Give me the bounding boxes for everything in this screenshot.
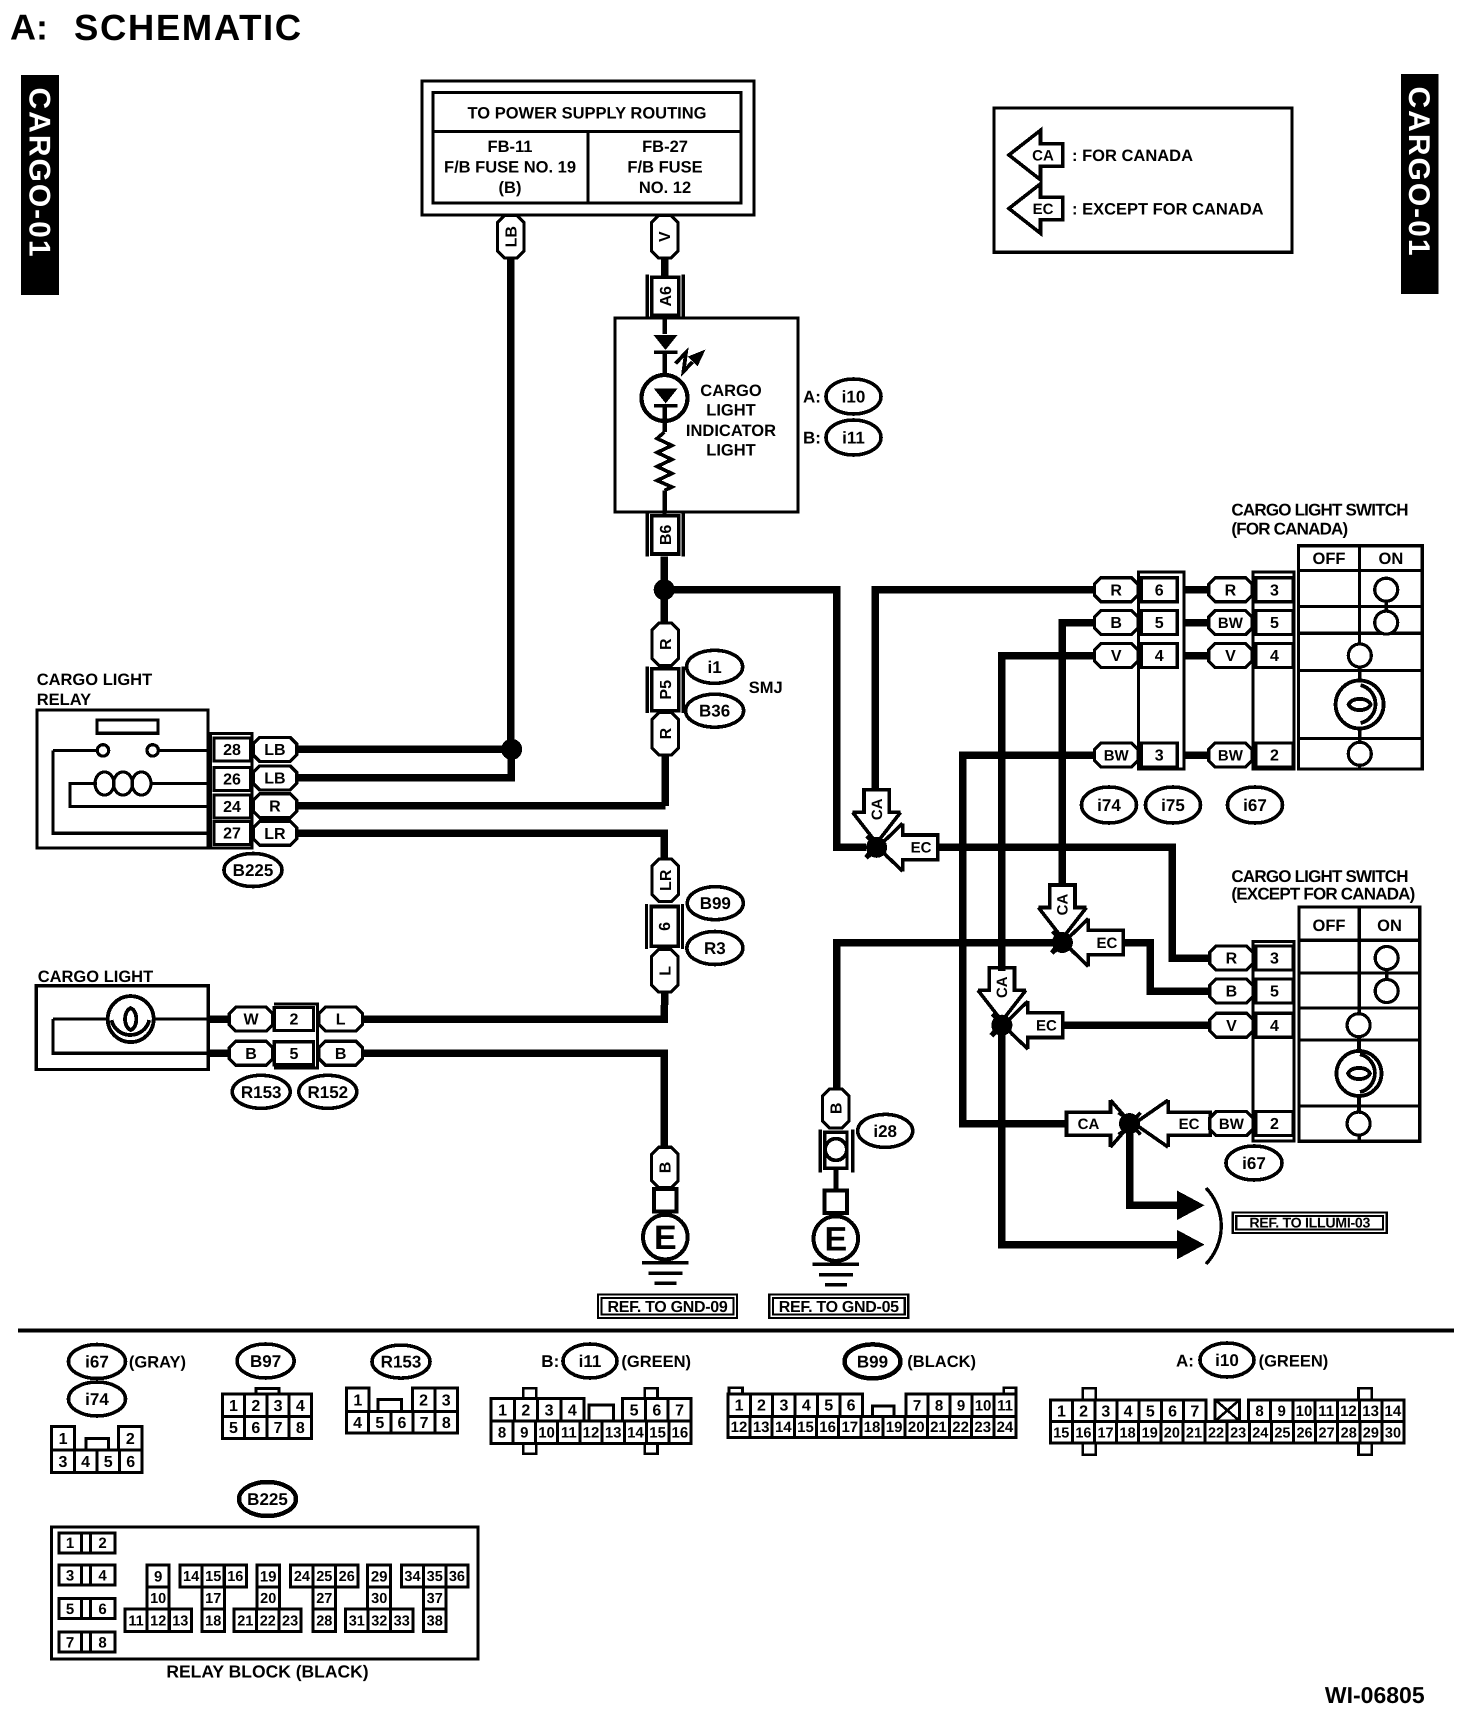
svg-text:6: 6 [398,1415,407,1432]
wire J0 down to SMJ [660,590,668,624]
connector ref oval i74 [1082,787,1137,823]
node J3 [991,1015,1012,1036]
svg-text:8: 8 [935,1397,943,1414]
svg-text:V: V [657,231,674,242]
wire diode to LED [662,353,666,376]
connector i74 pin diagram [52,1427,142,1473]
connector ref oval B225 [224,854,282,887]
switch table (FOR CANADA) [1298,546,1422,769]
svg-text:28: 28 [316,1613,332,1629]
svg-text:26: 26 [1296,1425,1312,1441]
svg-text:10: 10 [1296,1403,1313,1420]
svg-text:17: 17 [205,1591,221,1607]
svg-text:B: B [657,1162,674,1174]
svg-text:35: 35 [427,1569,443,1585]
svg-text:B225: B225 [233,861,274,880]
svg-text:1: 1 [229,1398,238,1415]
svg-text:i75: i75 [1161,796,1185,815]
arrow EC3 [992,1001,1063,1049]
terminal R pin24 [253,794,297,818]
svg-text:CARGO LIGHT SWITCH: CARGO LIGHT SWITCH [1231,867,1408,886]
svg-text:4: 4 [1270,648,1279,665]
svg-text:A:: A: [1176,1351,1194,1370]
node J4 [1119,1113,1140,1134]
wire EC2 to i67 B-5 row [1123,943,1209,992]
svg-text:17: 17 [1097,1425,1113,1441]
ground E symbol GND-05 [812,1191,859,1285]
svg-text:26: 26 [223,772,241,789]
svg-text:B99: B99 [857,1352,888,1371]
relay block group 24-26/27/28 [291,1565,358,1631]
connector ref oval R152 [299,1075,357,1108]
svg-text:CA: CA [1032,147,1054,164]
label CARGO LIGHT [38,968,154,986]
svg-text:R: R [1225,582,1237,599]
connector B97 pin diagram [222,1388,311,1438]
svg-text:i10: i10 [842,387,866,406]
terminal W (cargo light) [229,1007,273,1031]
svg-text:RELAY: RELAY [37,691,91,709]
terminal V (fuse FB-27 output) [651,215,678,258]
connector ref oval B99 [687,887,743,920]
connector i28 (boxed bulb contact) [820,1129,852,1172]
node J2 [1052,932,1073,953]
svg-text:13: 13 [1362,1403,1379,1420]
svg-text:2: 2 [1270,1116,1279,1133]
wire box to W terminal [208,1015,231,1023]
svg-text:4: 4 [1124,1403,1133,1420]
svg-text:B99: B99 [700,894,731,913]
svg-text:RELAY BLOCK (BLACK): RELAY BLOCK (BLACK) [166,1662,368,1682]
connector ref A: i10 (GREEN) [1176,1343,1328,1377]
svg-text:8: 8 [296,1420,305,1437]
svg-text:23: 23 [282,1613,298,1629]
svg-text:11: 11 [561,1425,577,1442]
svg-text:6: 6 [1155,582,1164,599]
svg-text:B97: B97 [250,1352,281,1371]
connector ref A: i10 [803,379,881,414]
wire i74 B-5 row to CA2 [1062,623,1094,886]
connector B6 [647,513,683,556]
svg-text:3: 3 [1101,1403,1110,1420]
svg-text:(GREEN): (GREEN) [621,1353,691,1371]
svg-text:6: 6 [98,1601,106,1618]
svg-text:L: L [336,1012,346,1029]
svg-text:: EXCEPT FOR CANADA: : EXCEPT FOR CANADA [1072,200,1264,218]
wire box to B terminal [208,1049,231,1057]
svg-text:10: 10 [150,1591,166,1607]
connector ref oval R153 [232,1075,290,1108]
svg-text:14: 14 [183,1569,199,1585]
wire junction down to pin26 LB [296,749,511,778]
svg-text:2: 2 [1079,1403,1088,1420]
svg-text:B: B [828,1103,845,1115]
svg-text:SCHEMATIC: SCHEMATIC [74,7,303,48]
separator line [18,1329,1454,1333]
svg-text:: FOR CANADA: : FOR CANADA [1072,147,1193,165]
svg-text:6: 6 [847,1398,856,1415]
svg-text:2: 2 [757,1398,766,1415]
relay block group 19/20/21-23 [234,1565,301,1631]
connector ref B: i11 (GREEN) [541,1344,691,1378]
svg-text:R: R [1110,582,1122,599]
svg-text:8: 8 [1255,1403,1263,1420]
svg-text:L: L [657,966,674,976]
wire i74 BW-3 row down to CA4 [963,755,1095,1124]
light emission arrow [676,350,706,372]
svg-text:NO. 12: NO. 12 [639,179,691,197]
svg-text:LR: LR [658,869,675,891]
node J0 (junction below B6) [654,579,675,600]
switch contacts ON column (CA) [1375,578,1398,634]
svg-text:2: 2 [126,1431,135,1448]
svg-text:BW: BW [1104,747,1130,764]
svg-text:8: 8 [98,1634,106,1651]
svg-text:(GREEN): (GREEN) [1259,1352,1329,1370]
svg-text:3: 3 [59,1454,68,1471]
svg-text:7: 7 [66,1634,74,1651]
terminal LB (fuse FB-11 output) [498,215,525,258]
left CARGO-01 banner [21,75,59,295]
svg-text:W: W [243,1012,259,1029]
svg-text:i10: i10 [1215,1351,1239,1370]
power supply block TO POWER SUPPLY ROUTING [422,81,754,215]
svg-text:1: 1 [498,1402,507,1419]
svg-text:i67: i67 [85,1352,109,1371]
svg-text:CA: CA [869,798,886,820]
svg-text:5: 5 [1146,1403,1155,1420]
connector ref oval i28 [858,1114,913,1147]
svg-text:CARGO: CARGO [700,382,762,400]
connector ref oval B97 [237,1344,294,1378]
svg-text:7: 7 [274,1420,283,1437]
svg-text:5: 5 [289,1046,298,1063]
svg-text:i74: i74 [85,1390,109,1409]
label CARGO LIGHT INDICATOR LIGHT [686,382,776,460]
wire L down and left to cargo light [363,992,665,1019]
arrow CA1 (for Canada path) [853,790,901,858]
svg-text:25: 25 [1274,1425,1290,1441]
arrow EC2 [1052,919,1123,967]
svg-text:REF. TO ILLUMI-03: REF. TO ILLUMI-03 [1249,1216,1370,1232]
svg-text:5: 5 [229,1420,238,1437]
svg-text:SMJ: SMJ [749,679,783,697]
arrow EC1 (except for Canada path) [867,823,938,871]
connector R153 pin diagram [347,1388,458,1433]
label CARGO LIGHT SWITCH (FOR CANADA) [1231,500,1408,538]
wire B6 to node J0 [660,557,668,590]
svg-text:4: 4 [1155,648,1164,665]
svg-text:19: 19 [1142,1425,1158,1441]
svg-text:9: 9 [520,1425,528,1442]
arrow EC4 [1119,1100,1211,1147]
svg-text:CARGO LIGHT: CARGO LIGHT [38,968,154,986]
svg-text:8: 8 [498,1425,506,1442]
svg-text:37: 37 [427,1591,443,1607]
wire inside indicator (top lead) [662,318,666,334]
connector P5 SMJ [647,666,683,713]
svg-text:27: 27 [1319,1425,1335,1441]
svg-text:3: 3 [274,1398,283,1415]
svg-text:4: 4 [81,1454,90,1471]
connector ref oval i74 [69,1382,126,1416]
svg-text:OFF: OFF [1313,550,1346,568]
ref box REF. TO ILLUMI-03 [1233,1213,1387,1234]
cargo light internal wiring [53,1019,208,1053]
svg-text:15: 15 [649,1425,666,1442]
relay contact circuit (pins 28-27) [53,745,208,834]
svg-text:23: 23 [974,1419,991,1436]
arrowhead to illumination (upper) [1177,1191,1205,1221]
svg-text:36: 36 [449,1569,465,1585]
wire J4 down to illumination feed [1130,1124,1181,1206]
svg-text:LB: LB [264,771,285,788]
label CARGO LIGHT RELAY [37,671,153,709]
terminal R (above SMJ) [652,623,679,666]
wire EC1 to i67 R-3 row [938,847,1210,958]
svg-text:E: E [824,1221,847,1259]
arrow CA4 [1067,1100,1141,1147]
svg-text:(FOR CANADA): (FOR CANADA) [1231,520,1347,539]
ground E symbol GND-09 [642,1189,689,1283]
svg-text:2: 2 [98,1535,106,1552]
svg-text:29: 29 [371,1568,388,1585]
svg-text:R153: R153 [381,1353,422,1372]
svg-text:12: 12 [150,1613,166,1629]
terminal LB pin26 [253,766,297,790]
connector i67 terminals R/B/V/BW (except Canada switch) [1210,946,1254,1136]
fuse FB-11 label [444,138,576,197]
svg-text:3: 3 [1270,582,1279,599]
connector i67 pin column 3/5/4/2 (except Canada) [1253,941,1294,1141]
terminal LR pin27 [253,821,297,845]
svg-text:1: 1 [59,1431,68,1448]
ref box REF. TO GND-09 [598,1295,737,1319]
relay block group 14-16/17/18 [180,1565,246,1631]
svg-text:9: 9 [154,1568,162,1585]
svg-text:28: 28 [1341,1425,1357,1441]
svg-text:A6: A6 [658,286,675,307]
svg-text:R: R [269,798,281,815]
relay block group 29/30/31-33 [346,1565,413,1631]
svg-text:R3: R3 [704,939,726,958]
terminal B (to GND-05) [823,1089,850,1128]
svg-text:LR: LR [264,826,286,843]
svg-text:5: 5 [1155,615,1164,632]
connector B99 pin diagram [728,1388,1016,1438]
svg-text:27: 27 [223,826,241,843]
legend box [994,108,1292,252]
svg-text:V: V [1225,648,1236,665]
switch lamp circuit (CA) [1336,644,1384,765]
wire R-6 row to CA1 drop [875,590,1094,791]
svg-text:5: 5 [630,1402,639,1419]
svg-text:6: 6 [251,1420,260,1437]
svg-text:7: 7 [675,1402,684,1419]
svg-text:33: 33 [394,1613,410,1629]
svg-text:1: 1 [735,1398,744,1415]
svg-text:i67: i67 [1243,796,1267,815]
wire V feed from FB-27 to connector A6 [661,256,669,276]
wire LB feed from FB-11 down to relay junction [507,256,515,749]
svg-text:E: E [654,1219,677,1257]
svg-text:20: 20 [908,1419,925,1436]
legend CA arrow : FOR CANADA [1009,130,1193,180]
svg-text:CA: CA [1055,894,1072,916]
svg-text:5: 5 [824,1398,833,1415]
relay block left pin pairs 1-8 [59,1533,115,1652]
svg-text:CARGO-01: CARGO-01 [1402,86,1435,257]
label SMJ [749,679,783,697]
svg-text:R153: R153 [241,1083,282,1102]
svg-text:4: 4 [802,1398,811,1415]
svg-text:6: 6 [1168,1403,1177,1420]
node LB junction at relay [501,739,522,760]
svg-text:24: 24 [997,1419,1014,1436]
connector 6 (B99/R3) [647,904,683,949]
diode D (series diode) [654,335,678,352]
node J1 [866,837,887,858]
svg-text:31: 31 [349,1613,365,1629]
wire cargo light B row right then down to ground [363,1053,665,1148]
svg-text:A:: A: [10,7,48,48]
svg-text:29: 29 [1363,1425,1379,1441]
svg-text:WI-06805: WI-06805 [1325,1682,1425,1708]
svg-text:21: 21 [930,1419,947,1436]
svg-text:OFF: OFF [1313,917,1346,935]
svg-text:i11: i11 [842,428,865,447]
svg-text:LB: LB [264,742,285,759]
svg-text:30: 30 [1385,1425,1401,1441]
label RELAY BLOCK (BLACK) [166,1662,368,1682]
connector ref B: i11 [803,420,881,455]
svg-text:22: 22 [1208,1425,1224,1441]
wire pin24 R to SMJ chain [296,802,665,810]
connector i67 pin column 3/5/4/2 [1253,572,1294,769]
terminal R (below SMJ) [652,712,679,755]
svg-text:24: 24 [223,799,241,816]
svg-text:34: 34 [404,1569,420,1585]
svg-text:13: 13 [605,1425,622,1442]
connector R153 2/5 column [274,1004,318,1068]
svg-text:B36: B36 [699,702,730,721]
svg-text:i74: i74 [1097,796,1121,815]
svg-text:27: 27 [316,1591,332,1607]
svg-text:24: 24 [294,1569,310,1585]
svg-text:CARGO LIGHT SWITCH: CARGO LIGHT SWITCH [1231,500,1408,519]
svg-text:24: 24 [1252,1425,1268,1441]
svg-text:LIGHT: LIGHT [706,441,756,459]
connector i67 terminals R/BW/V/BW (Canada switch) [1209,578,1253,767]
svg-text:6: 6 [652,1402,661,1419]
svg-text:18: 18 [864,1419,881,1436]
wires i75 to i67 rows [1184,590,1208,755]
svg-text:CA: CA [994,976,1011,998]
wire LED to resistor [662,405,666,432]
connector ref oval R153 (pin diagram) [372,1345,430,1378]
svg-text:BW: BW [1218,747,1244,764]
svg-text:16: 16 [1075,1425,1091,1441]
svg-text:6: 6 [126,1454,135,1471]
terminal L (to cargo light) [652,950,679,993]
svg-text:2: 2 [419,1392,428,1409]
switch contacts ON column (EC) [1375,947,1398,1003]
svg-text:i11: i11 [579,1352,602,1371]
svg-text:REF. TO GND-09: REF. TO GND-09 [608,1299,728,1316]
svg-text:REF. TO GND-05: REF. TO GND-05 [779,1299,899,1316]
wire i74 V-4 row down to CA3 [1002,656,1095,972]
wire SMJ chain down to relay pin 24 row [662,755,670,806]
connector ref oval i67 [1228,787,1283,823]
svg-text:7: 7 [420,1415,429,1432]
arc bracket to illumination [1206,1188,1221,1264]
svg-text:B: B [335,1046,347,1063]
relay box [37,710,208,848]
cargo light bulb [108,996,154,1042]
svg-text:38: 38 [427,1613,443,1629]
svg-text:10: 10 [975,1397,992,1414]
arrow CA3 [978,968,1026,1035]
svg-text:22: 22 [260,1613,276,1629]
ref box REF. TO GND-05 [769,1295,908,1319]
svg-text:4: 4 [568,1402,577,1419]
svg-text:5: 5 [66,1601,74,1618]
svg-text:20: 20 [1164,1425,1180,1441]
svg-text:B:: B: [803,428,821,447]
relay block group 34-36/37/38 [401,1565,468,1631]
svg-text:15: 15 [1053,1425,1069,1441]
svg-text:5: 5 [1270,984,1279,1001]
svg-text:2: 2 [289,1012,298,1029]
svg-text:25: 25 [316,1569,332,1585]
svg-text:15: 15 [797,1419,814,1436]
wire indicator box to B6 [663,512,667,516]
terminal B (cargo light) [229,1041,273,1065]
svg-text:EC: EC [911,840,932,857]
svg-text:P5: P5 [658,680,675,700]
svg-text:5: 5 [375,1415,384,1432]
svg-text:(EXCEPT FOR CANADA): (EXCEPT FOR CANADA) [1231,885,1414,904]
svg-text:FB-11: FB-11 [488,138,533,156]
svg-text:2: 2 [521,1402,530,1419]
svg-text:B: B [245,1046,257,1063]
svg-text:V: V [1111,648,1122,665]
svg-text:BW: BW [1219,1116,1245,1133]
svg-text:EC: EC [1033,201,1054,218]
svg-text:EC: EC [1096,935,1117,952]
svg-text:11: 11 [997,1397,1013,1414]
svg-text:BW: BW [1218,615,1244,632]
wire J0 right then down to J1 [664,590,866,848]
wire pin28 LB to junction [296,746,512,754]
connector ref oval i1 [687,650,743,683]
svg-text:14: 14 [775,1419,792,1436]
svg-text:B6: B6 [658,525,675,546]
connector i75 pin column 6/5/4/3 [1139,572,1184,769]
terminal B (to GND-09) [652,1147,679,1188]
svg-text:i1: i1 [708,658,722,677]
cargo light box [36,986,208,1070]
svg-text:1: 1 [1057,1403,1066,1420]
relay coil (pins 26-24) [70,772,208,807]
svg-text:A:: A: [803,387,821,406]
svg-text:2: 2 [251,1398,260,1415]
svg-text:EC: EC [1179,1116,1200,1133]
connector ref oval R3 [687,932,743,965]
relay block B225 outline [52,1527,478,1659]
svg-text:10: 10 [538,1425,555,1442]
svg-text:21: 21 [1186,1425,1202,1441]
